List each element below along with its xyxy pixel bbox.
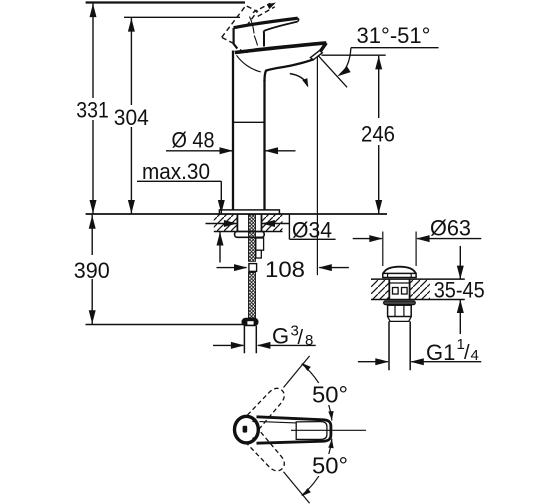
inner joint curve (237, 55, 261, 72)
svg-text:/: / (464, 342, 470, 364)
lever base left edge (234, 28, 238, 49)
lever blade underside (264, 22, 298, 32)
angle arcs (302, 364, 332, 421)
pivot circle (235, 416, 259, 443)
lever neck right edge (263, 31, 265, 46)
drain cap (383, 267, 415, 274)
dim G1 1/4 (358, 336, 481, 365)
drain washer (384, 301, 416, 305)
solid lever body (257, 417, 331, 443)
dim 246 (360, 56, 397, 214)
centerline (291, 429, 366, 431)
counter bottom line (214, 231, 283, 233)
svg-text:Ø 48: Ø 48 (172, 127, 215, 152)
dim diam48 (166, 127, 296, 154)
svg-text:Ø34: Ø34 (292, 218, 332, 243)
base plate (219, 210, 279, 214)
svg-text:331: 331 (76, 98, 109, 123)
faucet shank hole edges (237, 215, 261, 232)
svg-text:/: / (298, 327, 304, 349)
svg-text:Ø63: Ø63 (430, 215, 471, 240)
svg-text:4: 4 (471, 347, 479, 364)
svg-text:304: 304 (114, 105, 149, 130)
base interior curves (240, 17, 258, 53)
counter slab (371, 279, 389, 299)
countertop slab (faucet) (86, 214, 387, 232)
dim 35-45 (434, 246, 485, 334)
svg-text:390: 390 (74, 258, 110, 283)
lever blade tip (298, 18, 299, 21)
mounting below counter: washer (235, 232, 265, 238)
dim 390 (74, 215, 110, 324)
dashed raised lever (222, 3, 275, 43)
dim 108 (217, 257, 349, 282)
svg-text:50°: 50° (312, 453, 348, 479)
dim 331 (76, 4, 109, 214)
flexible hose (upper) (249, 215, 257, 318)
inner panel (296, 422, 327, 440)
faucet trunk (233, 51, 265, 210)
246 extension vertical (316, 57, 318, 276)
spout underside (265, 59, 314, 81)
svg-text:G1: G1 (426, 340, 455, 365)
304 extension line (124, 16, 240, 18)
spout top edge (235, 43, 326, 53)
246 top extension (322, 54, 386, 56)
drain body through counter (389, 279, 409, 299)
rays (284, 356, 310, 503)
bottom extension line (hose end) (86, 324, 244, 326)
lever blade top (234, 18, 298, 28)
svg-text:31°-51°: 31°-51° (357, 23, 431, 48)
stud step blocks (256, 238, 264, 250)
counter top surface line (86, 213, 387, 215)
dim max.30 (137, 159, 225, 263)
angle arc (340, 48, 351, 75)
drain tailpipe (389, 321, 410, 370)
svg-text:max.30: max.30 (142, 159, 210, 184)
dim G3/8 (213, 322, 316, 349)
svg-text:8: 8 (305, 332, 313, 349)
aerator (311, 50, 323, 60)
dim 304 (113, 18, 149, 214)
flow arc (290, 74, 308, 86)
dashed lever arrow (267, 0, 277, 9)
svg-text:108: 108 (265, 257, 305, 282)
angle ray (318, 55, 347, 87)
G3/8 pipe (244, 326, 256, 354)
50 deg labels (308, 382, 351, 479)
drain nut (388, 305, 412, 316)
dim diam34 (206, 215, 336, 243)
dim diam63 (353, 215, 482, 266)
hose end nut (242, 318, 258, 325)
svg-text:G: G (272, 323, 289, 348)
svg-text:50°: 50° (312, 382, 348, 408)
svg-text:35-45: 35-45 (434, 278, 485, 303)
31-51 underline (351, 47, 439, 49)
svg-text:246: 246 (361, 122, 395, 147)
spout tip face (319, 43, 326, 53)
dashed swung levers (242, 384, 288, 433)
top extension line (86, 1, 245, 3)
